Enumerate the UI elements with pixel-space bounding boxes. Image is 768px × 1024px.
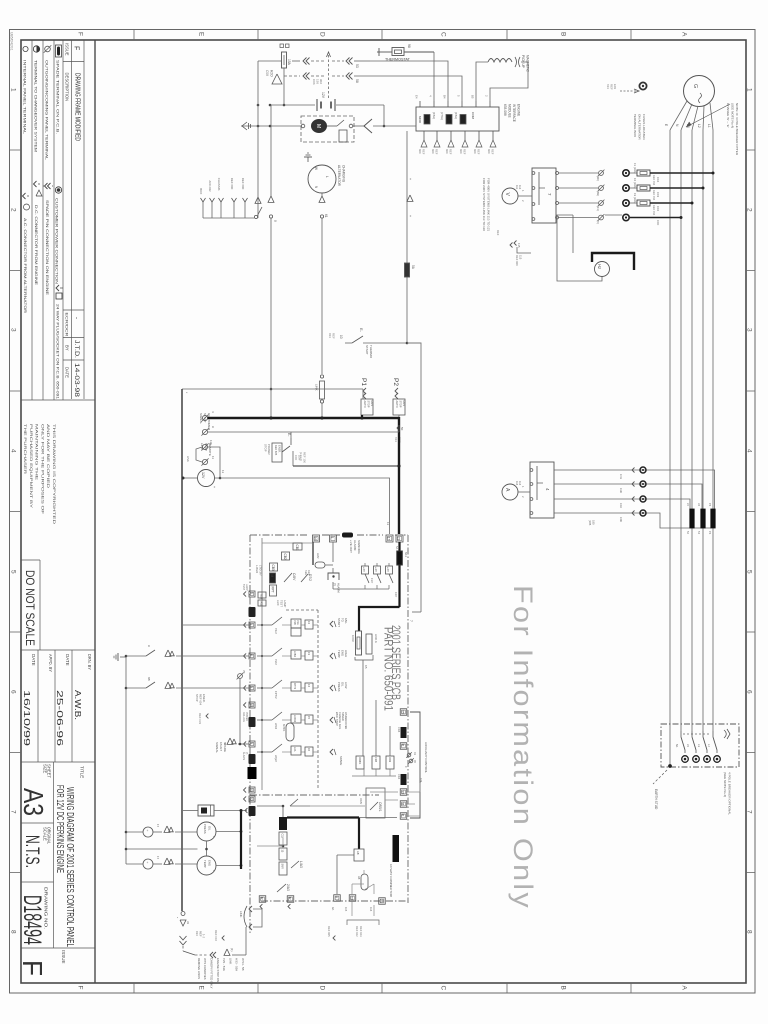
svg-text:LINK: LINK (228, 958, 232, 964)
generator circle (684, 76, 715, 107)
sense tap spare (330, 749, 333, 755)
svg-text:START: START (337, 618, 341, 627)
feed from terminal 16 (312, 542, 314, 565)
svg-text:REF 008: REF 008 (515, 255, 519, 266)
eng temp gauge (197, 856, 216, 875)
svg-text:TERMINAL BOX: TERMINAL BOX (633, 114, 637, 137)
svg-text:D.C. CONNECTOR FROM ENGINE: D.C. CONNECTOR FROM ENGINE (34, 205, 38, 286)
svg-text:B5: B5 (471, 95, 475, 99)
resistor 70ohm leg (238, 674, 243, 679)
appd by cell (37, 650, 39, 762)
svg-text:3: 3 (249, 686, 253, 688)
legend terminal to changeover system (33, 46, 39, 52)
pcb boundary left (249, 535, 251, 935)
svg-text:D: D (319, 986, 326, 991)
switch wire row 688 (126, 687, 146, 689)
svg-text:+: + (212, 870, 216, 872)
aux terminal 13 (400, 789, 407, 796)
svg-text:EARTH STUD: EARTH STUD (654, 789, 658, 810)
svg-text:REF 034: REF 034 (652, 205, 656, 216)
svg-text:REF: REF (422, 149, 426, 155)
svg-text:+: + (212, 836, 216, 838)
legend dc connector from engine (34, 181, 37, 187)
svg-text:17: 17 (156, 856, 160, 860)
svg-text:12V: 12V (201, 472, 205, 479)
svg-text:3: 3 (746, 328, 753, 332)
panel boundary riser left (181, 389, 183, 911)
svg-text:600: 600 (473, 149, 477, 154)
svg-text:SMR: SMR (280, 864, 283, 870)
svg-text:FUSES LOCATED: FUSES LOCATED (642, 114, 646, 140)
svg-text:16/10/99: 16/10/99 (22, 690, 32, 746)
svg-text:600: 600 (431, 149, 435, 154)
aux terminal 25 (400, 709, 407, 716)
svg-text:FAILURE: FAILURE (242, 712, 245, 722)
svg-text:BY: BY (65, 345, 70, 351)
svg-text:C: C (440, 32, 447, 37)
svg-text:17: 17 (387, 537, 391, 541)
svg-text:W: W (314, 167, 318, 170)
svg-text:REF: REF (496, 230, 500, 236)
svg-text:(SEE NOTE No.4): (SEE NOTE No.4) (723, 772, 727, 797)
svg-text:6: 6 (401, 744, 405, 746)
svg-text:E-: E- (359, 328, 364, 333)
wire fuse left (258, 60, 282, 62)
start signal wire to P2 (208, 431, 400, 433)
dashed engine row A (292, 60, 300, 62)
svg-text:REF: REF (491, 149, 495, 155)
current transformers (690, 509, 694, 528)
pcb top edge terminal 21 (396, 535, 403, 542)
generator output fan (670, 101, 687, 130)
svg-text:TERMINAL TO CHANGEOVER SYSTEM: TERMINAL TO CHANGEOVER SYSTEM (34, 60, 38, 152)
svg-text:A3: A3 (18, 788, 49, 816)
gauge feed row2 to bus (216, 865, 241, 867)
pcb top edge terminal 17 (386, 535, 393, 542)
svg-text:FPT/2: FPT/2 (274, 691, 278, 699)
svg-text:REMOVE LINKS: REMOVE LINKS (197, 958, 201, 979)
svg-text:B: B (560, 986, 567, 990)
svg-text:11A: 11A (209, 440, 213, 445)
legend outgoing/incoming panel terminal (45, 46, 51, 52)
pcb top edge terminal 16 (313, 535, 320, 542)
svg-text:STOP: STOP (195, 694, 199, 702)
svg-text:+: + (145, 830, 149, 832)
svg-text:5: 5 (746, 570, 753, 574)
svg-text:STOP: STOP (264, 444, 268, 452)
svg-text:CANOPY FITTED ONLY: CANOPY FITTED ONLY (210, 958, 214, 989)
line L2 down (702, 130, 704, 731)
battery wire to pcb terminal 17 (215, 478, 390, 534)
svg-text:[--]: [--] (202, 934, 206, 938)
svg-text:OR5/: OR5/ (359, 798, 363, 804)
dashed aux line (286, 609, 318, 611)
terminal 20 bottom (379, 898, 386, 905)
svg-text:MAINTAINING THE: MAINTAINING THE (35, 424, 39, 481)
svg-text:A 53 - 53A: A 53 - 53A (235, 958, 239, 971)
sense tap over speed (330, 717, 333, 723)
svg-text:115: 115 (519, 255, 523, 260)
svg-text:17: 17 (156, 824, 160, 828)
svg-text:2/Q/2: 2/Q/2 (274, 755, 278, 762)
svg-text:P2: P2 (708, 531, 712, 535)
svg-text:2: 2 (10, 208, 17, 212)
svg-text:60H01: 60H01 (282, 724, 285, 732)
legend row spade terminal on pcb (56, 45, 62, 57)
sender wire to pcb (214, 810, 247, 812)
svg-text:LOW2: LOW2 (293, 715, 296, 723)
svg-text:STOP: STOP (399, 401, 403, 408)
fuse 5A on rail (405, 263, 410, 277)
svg-text:104: 104 (419, 778, 423, 783)
svg-text:FPT2: FPT2 (293, 683, 296, 690)
svg-text:(7.5A): (7.5A) (440, 112, 444, 120)
svg-text:CHANGE 'N' -- 'E': CHANGE 'N' -- 'E' (726, 103, 730, 128)
link A (366, 634, 372, 654)
svg-text:DATE: DATE (65, 367, 70, 378)
svg-text:REF 022: REF 022 (355, 926, 359, 937)
svg-text:3: 3 (10, 328, 17, 332)
svg-text:7: 7 (746, 810, 753, 814)
svg-text:DESCRIPTION: DESCRIPTION (65, 73, 70, 102)
svg-text:L3: L3 (697, 744, 701, 747)
drawing no cell (21, 881, 54, 883)
svg-text:14-03-98: 14-03-98 (73, 363, 80, 397)
wire hz terminal row4 (605, 214, 622, 216)
svg-text:8: 8 (746, 930, 753, 934)
svg-text:ENER.: ENER. (278, 445, 282, 453)
svg-text:5A: 5A (395, 546, 399, 549)
lamp feed wire (126, 848, 198, 850)
svg-text:033: 033 (328, 333, 332, 338)
svg-text:12V: 12V (321, 92, 325, 99)
relay contacts bottom left (291, 861, 299, 868)
svg-text:N.T.S.: N.T.S. (21, 835, 42, 868)
svg-text:NOTE: IF 4 POLE BREAKER FITTED: NOTE: IF 4 POLE BREAKER FITTED (735, 103, 739, 156)
indicator stack (279, 817, 287, 830)
svg-text:C10: C10 (619, 503, 623, 508)
oil press lamp (143, 827, 153, 837)
svg-text:11: 11 (386, 522, 390, 525)
svg-text:ON ALTERNATOR: ON ALTERNATOR (638, 114, 642, 140)
fuse on thick feed (397, 551, 403, 565)
svg-text:5: 5 (10, 570, 17, 574)
thick feed from terminal 21 (398, 542, 400, 607)
svg-text:+3/7: +3/7 (386, 567, 389, 573)
svg-text:3: 3 (249, 742, 253, 744)
svg-text:20: 20 (379, 899, 383, 903)
svg-text:K5: K5 (364, 665, 368, 669)
svg-text:(!): (!) (333, 583, 337, 586)
svg-text:(0): (0) (596, 221, 600, 224)
svg-text:A.C. CONNECTOR FROM ALTERNATOR: A.C. CONNECTOR FROM ALTERNATOR (23, 218, 27, 313)
svg-text:THIS DRAWING IS COPYRIGHTED: THIS DRAWING IS COPYRIGHTED (52, 424, 56, 525)
svg-text:M: M (270, 575, 274, 578)
svg-text:Y2/2: Y2/2 (274, 659, 278, 665)
or relay coil (361, 874, 368, 890)
alternator ground (307, 157, 309, 162)
date drawn cell (54, 650, 56, 762)
svg-text:AUX: AUX (276, 600, 280, 606)
magnetic pickup coil (488, 59, 512, 63)
svg-text:11: 11 (401, 802, 405, 806)
aux terminal 6 (400, 743, 407, 750)
svg-text:C/8V: C/8V (292, 573, 296, 581)
svg-text:+: + (145, 862, 149, 864)
svg-text:A.W.B.: A.W.B. (73, 690, 83, 720)
aux terminal 6b (400, 813, 407, 820)
legend internal panel terminal (23, 46, 28, 51)
pcb inner vertical rail (261, 538, 263, 790)
svg-text:23: 23 (350, 896, 354, 900)
svg-text:N11: N11 (404, 552, 408, 557)
aux terminal 11 (400, 801, 407, 808)
svg-text:OR5/1: OR5/1 (378, 802, 382, 812)
zone tick marks (10, 149, 22, 151)
svg-text:REF 002: REF 002 (214, 930, 218, 941)
svg-text:16: 16 (313, 537, 317, 541)
svg-text:F2 (10A): F2 (10A) (633, 178, 637, 189)
svg-text:15A: 15A (287, 59, 291, 66)
svg-text:SPARE: SPARE (339, 756, 343, 765)
svg-text:6B: 6B (147, 677, 151, 681)
svg-text:98: 98 (407, 44, 411, 48)
lamp links (126, 831, 143, 833)
svg-text:ENGINE: ENGINE (517, 104, 521, 116)
svg-text:61: 61 (324, 214, 328, 218)
svg-text:C: C (440, 986, 447, 991)
feed from terminal 1 to alarm (332, 542, 334, 562)
svg-text:REF 600: REF 600 (241, 178, 245, 190)
svg-text:600: 600 (459, 149, 463, 154)
svg-text:P4: P4 (708, 503, 712, 507)
EIM top pins (419, 101, 421, 107)
pcb top inner components (262, 542, 312, 544)
ground bus end switch and ref triangle (254, 215, 257, 218)
svg-text:SIZE: SIZE (43, 764, 48, 774)
fuse row wires (558, 172, 598, 174)
line L1 down (712, 130, 714, 731)
lamp to gauge row 1 (153, 831, 162, 833)
svg-text:F: F (73, 46, 80, 50)
svg-text:COM: COM (471, 112, 475, 120)
svg-text:PICK UP: PICK UP (521, 55, 525, 68)
svg-text:]185: ]185 (588, 520, 592, 526)
svg-text:(15A): (15A) (432, 112, 436, 119)
100R resistor (356, 631, 362, 655)
svg-text:TEST: TEST (259, 594, 262, 601)
svg-text:C00: C00 (619, 517, 623, 522)
svg-text:(89): (89) (596, 191, 600, 196)
svg-text:ALTERNATOR: ALTERNATOR (337, 165, 341, 187)
svg-text:1: 1 (746, 88, 753, 92)
legend spade pin connection on engine (45, 183, 48, 189)
svg-text:(11): (11) (596, 206, 600, 211)
svg-text:REF: REF (435, 149, 439, 155)
svg-text:-: - (73, 317, 79, 319)
svg-text:+VE OUT: +VE OUT (349, 540, 353, 553)
svg-text:L/A3: L/A3 (299, 861, 303, 868)
svg-text:50: 50 (400, 427, 404, 431)
svg-text:ACC.DR: ACC.DR (208, 180, 212, 191)
svg-text:L4: L4 (707, 744, 711, 747)
svg-text:SPADE TERMINAL ON P.C.B.: SPADE TERMINAL ON P.C.B. (56, 60, 60, 134)
svg-text:FOR 230V SYSTEMS LINK 113 TO 1: FOR 230V SYSTEMS LINK 113 TO 110 (482, 178, 486, 231)
voltmeter (502, 188, 518, 204)
svg-text:112: 112 (518, 185, 522, 190)
heavy pcb bottom bus (287, 816, 359, 818)
title cell (21, 761, 95, 763)
svg-text:SCALE: SCALE (43, 827, 48, 841)
svg-text:CB3: CB3 (271, 565, 275, 571)
pcb boundary right (407, 535, 409, 903)
svg-text:CR6: CR6 (397, 727, 401, 733)
svg-text:REF: REF (307, 570, 311, 576)
svg-text:F3 (10A): F3 (10A) (633, 193, 637, 204)
svg-text:22: 22 (249, 797, 253, 801)
svg-text:REF: REF (477, 149, 481, 155)
svg-text:L1: L1 (707, 124, 711, 128)
panel boundary wire upper (182, 388, 271, 390)
svg-text:ECR/DCR: ECR/DCR (65, 313, 70, 337)
svg-text:INTERFACE: INTERFACE (512, 104, 516, 122)
svg-text:CR8: CR8 (374, 757, 377, 763)
svg-text:THE PURCHASER: THE PURCHASER (23, 424, 27, 475)
svg-text:ONLY FOR THE PURPOSES OF: ONLY FOR THE PURPOSES OF (40, 424, 44, 515)
10 way connector (393, 835, 400, 862)
svg-text:L-BGR: L-BGR (255, 565, 259, 573)
svg-text:N1: N1 (675, 744, 679, 748)
warning triangle H2O (272, 74, 282, 84)
svg-text:APPD. BY: APPD. BY (48, 654, 53, 672)
svg-text:L: L (325, 176, 329, 178)
svg-text:REF 605: REF 605 (274, 445, 278, 456)
wire row B to EIM pin3 (384, 76, 462, 101)
svg-text:15: 15 (249, 703, 253, 707)
svg-text:6: 6 (401, 814, 405, 816)
svg-text:OUTGOING/INCOMING PANEL TERMIN: OUTGOING/INCOMING PANEL TERMINAL (45, 60, 49, 160)
hz meter net (556, 214, 573, 216)
svg-text:F: F (77, 986, 84, 990)
svg-text:FOR 400V SYSTEMS LINK 113 TO 1: FOR 400V SYSTEMS LINK 113 TO 121 (487, 178, 491, 232)
svg-text:B: B (560, 32, 567, 36)
svg-text:OIL: OIL (208, 826, 212, 831)
sender box (198, 805, 214, 816)
mating bracket (347, 920, 379, 925)
battery 12V main (198, 470, 215, 487)
svg-text:TITLE: TITLE (80, 766, 85, 778)
hz heavy loop (592, 253, 634, 270)
title block outline (94, 40, 96, 983)
svg-text:ISSUE: ISSUE (61, 950, 66, 964)
sense tap fail to start (330, 621, 333, 627)
svg-text:LINK: LINK (239, 911, 243, 917)
svg-text:+4/7: +4/7 (374, 567, 377, 573)
aux link circles (407, 753, 411, 757)
heavy gauge bus (240, 811, 242, 870)
svg-text:600: 600 (445, 149, 449, 154)
svg-text:L2B4: L2B4 (293, 651, 296, 657)
svg-text:8: 8 (10, 930, 17, 934)
pcb boundary bottom (261, 900, 408, 902)
svg-text:C04: C04 (656, 177, 660, 183)
pcb boundary top (250, 534, 308, 536)
svg-text:PART NO. 650-091: PART NO. 650-091 (382, 627, 394, 711)
ab relay box (354, 849, 364, 861)
lamp to gauge row 2 (153, 863, 162, 865)
pcb top edge terminal 1 (330, 535, 337, 542)
svg-text:F1/7: F1/7 (370, 578, 374, 584)
svg-text:DATE: DATE (31, 654, 36, 666)
breaker box (661, 724, 739, 767)
svg-text:1: 1 (249, 623, 253, 625)
P2 ref 633 tail (398, 415, 400, 425)
svg-text:UB5/D42/01: UB5/D42/01 (10, 32, 14, 51)
svg-text:REF 600: REF 600 (230, 178, 234, 190)
svg-text:6: 6 (10, 690, 17, 694)
svg-text:A: A (681, 32, 688, 37)
legend customer power connection (55, 187, 61, 193)
svg-text:+: + (408, 178, 412, 180)
svg-text:11: 11 (221, 470, 225, 473)
svg-text:25-06-96: 25-06-96 (55, 690, 65, 746)
issue cell (21, 947, 95, 949)
terminal R bottom 1 (259, 896, 266, 903)
wire 12V row right end down (383, 105, 385, 126)
aux dark bar CR6 (401, 727, 407, 738)
svg-text:PRESS: PRESS (337, 682, 341, 692)
main ground riser (257, 61, 259, 218)
fuse 15A top left (282, 52, 287, 68)
vertical feed 271 down to box corner (270, 105, 272, 196)
power stop cluster (272, 443, 282, 462)
svg-text:31: 31 (186, 921, 190, 925)
svg-text:CB2: CB2 (283, 554, 287, 560)
svg-text:7: 7 (10, 810, 17, 814)
ref 114 tail (510, 243, 513, 248)
svg-text:C00: C00 (656, 220, 660, 226)
svg-text:E-: E- (287, 433, 291, 436)
svg-text:CB1: CB1 (295, 545, 299, 551)
relay ladder left terminals (244, 591, 247, 596)
svg-text:W 54 - 5B: W 54 - 5B (241, 958, 245, 971)
svg-text:TEST: TEST (280, 600, 284, 607)
svg-text:AB2: AB2 (259, 602, 262, 607)
svg-text:SIGNAL: SIGNAL (215, 742, 219, 753)
svg-text:C08: C08 (265, 70, 269, 76)
svg-text:MODULE: MODULE (508, 104, 512, 118)
EIM internal fuses (424, 115, 430, 125)
svg-text:Y2S - 53A: Y2S - 53A (222, 958, 226, 971)
svg-text:633: 633 (394, 437, 398, 442)
governor motor (312, 120, 327, 133)
svg-text:E: E (198, 986, 205, 991)
svg-text:P2: P2 (392, 378, 399, 386)
svg-text:+: + (408, 215, 412, 217)
terminal 23 bottom (349, 895, 356, 902)
svg-text:For Information Only: For Information Only (508, 585, 538, 910)
svg-text:LM2: LM2 (316, 553, 320, 559)
svg-text:LAMP: LAMP (283, 600, 287, 608)
svg-text:AUXILIARY CONTROL: AUXILIARY CONTROL (424, 742, 428, 773)
svg-text:V1A: V1A (296, 620, 299, 625)
dc positive rail from EIM down (406, 131, 408, 343)
svg-text:633-088: 633-088 (503, 104, 507, 116)
line E down to earth stud (669, 130, 671, 766)
svg-text:AND MAY BE COPIED: AND MAY BE COPIED (46, 424, 50, 489)
left edge dark bars (249, 607, 256, 617)
svg-text:L2A: L2A (293, 747, 296, 752)
